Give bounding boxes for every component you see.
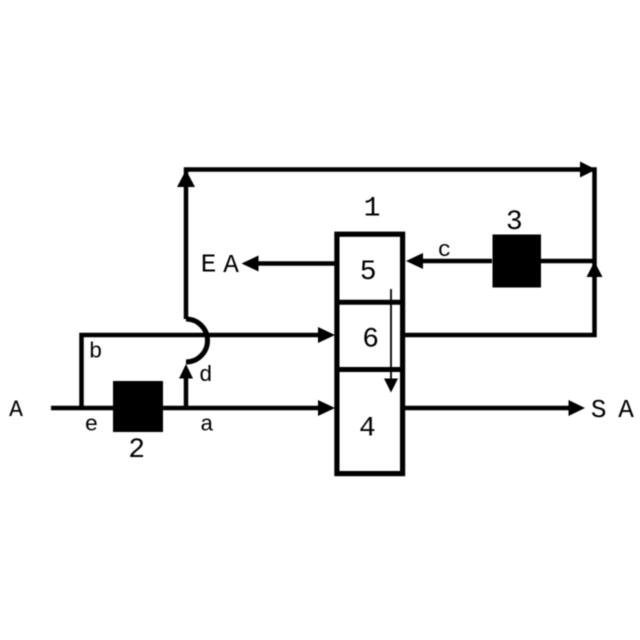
wire: hop arc (vertical wire bridging over b-line) — [186, 319, 208, 362]
arrowhead d: up — [179, 364, 193, 379]
svg-text:b: b — [89, 338, 103, 364]
arrowhead: left toward E A — [242, 256, 259, 272]
svg-text:5: 5 — [360, 257, 377, 288]
svg-text:c: c — [438, 237, 452, 263]
square block 3 — [493, 235, 542, 288]
wire c: square 3 to box 5 — [420, 259, 492, 264]
square block 2 — [113, 381, 163, 432]
svg-text:e: e — [85, 412, 99, 438]
svg-text:A: A — [223, 250, 239, 280]
svg-text:a: a — [200, 412, 214, 438]
wire d: vertical from A-line up to hop — [184, 376, 189, 406]
wire: feedback loop (left vertical up, top horizontal, right vertical down to node) — [186, 170, 595, 336]
wire: right vertical node to square 3 — [541, 259, 595, 264]
arrowhead: right toward S A — [569, 400, 586, 416]
wire: A input line into box 4 — [51, 406, 320, 411]
wire: box 5 output to E A — [256, 261, 336, 266]
arrowhead b: right into box 6 — [318, 327, 335, 343]
svg-text:4: 4 — [359, 414, 376, 445]
wire b: from A-line up and right into box 6 — [82, 335, 321, 410]
svg-text:1: 1 — [364, 194, 381, 225]
divider between cell 5 and 6 — [336, 300, 403, 305]
thin internal arrow from cell 5 to cell 4 — [390, 289, 392, 379]
svg-text:d: d — [199, 362, 213, 388]
arrowhead: right at top-right corner of loop — [580, 162, 596, 178]
svg-text:6: 6 — [362, 324, 379, 355]
svg-text:A: A — [9, 397, 23, 423]
arrowhead: up on right vertical below node — [587, 262, 603, 278]
svg-text:3: 3 — [506, 207, 523, 238]
arrowhead: up into top-left corner of loop — [177, 170, 195, 187]
arrowhead c: left into box 5 right side — [406, 253, 423, 269]
block 1 outer box — [337, 234, 403, 473]
svg-text:A: A — [618, 395, 634, 425]
svg-text:S: S — [591, 395, 607, 425]
arrowhead a: right into box 4 — [318, 400, 335, 416]
svg-text:2: 2 — [128, 435, 145, 466]
svg-text:E: E — [201, 250, 217, 280]
wire: box 4 output to S A — [404, 406, 570, 411]
divider between cell 6 and 4 — [336, 367, 403, 372]
